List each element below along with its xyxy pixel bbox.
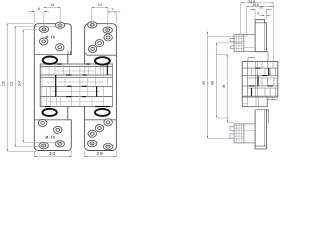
left leaf lower shoulder line bbox=[34, 119, 68, 121]
bold side link vertical 2 bbox=[257, 76, 259, 86]
svg-text:104: 104 bbox=[18, 81, 22, 87]
connector A bottom bbox=[207, 137, 232, 139]
dimension 28 bottom-right bbox=[85, 155, 117, 157]
bold link vertical 2 bbox=[96, 86, 98, 96]
lower ext v3 bbox=[257, 97, 259, 107]
screw hole right leaf cascade 3 bbox=[104, 34, 112, 41]
light partial row 4 bbox=[48, 101, 104, 103]
screw hole right leaf top 1 bbox=[87, 21, 98, 29]
dimension 14 top-left bbox=[44, 6, 60, 8]
bold side link vertical 3 bbox=[251, 88, 253, 96]
screw hole right leaf lower cascade 2 bbox=[95, 125, 103, 132]
pin boss bottom-right bbox=[95, 109, 110, 116]
plate bottom step bbox=[255, 145, 266, 147]
svg-text:95: 95 bbox=[202, 81, 206, 85]
svg-text:14: 14 bbox=[50, 3, 54, 7]
svg-text:48: 48 bbox=[222, 85, 226, 89]
housing bottom sub-step bbox=[242, 102, 247, 104]
dimension 8 top-left bbox=[28, 11, 34, 13]
screw hole right leaf cascade 4 bbox=[95, 40, 103, 47]
bracket-plate link mid bbox=[244, 46, 255, 48]
svg-text:10: 10 bbox=[259, 6, 263, 10]
side view left vertical dimensions bbox=[206, 32, 208, 138]
screw hole left leaf bottom row col1 bbox=[38, 141, 49, 149]
housing row 3b bbox=[247, 87, 277, 89]
light partial row 3 bbox=[52, 91, 100, 93]
upper bracket inner v2 bbox=[238, 34, 240, 51]
screw hole left leaf lower mid col2 bbox=[54, 126, 62, 133]
housing lower extension bbox=[242, 97, 267, 107]
pin boss top-left bbox=[43, 57, 57, 64]
connector hole A bbox=[23, 29, 40, 31]
housing pair line 1 bbox=[255, 62, 257, 98]
screw hole left leaf bottom row col2 bbox=[55, 140, 66, 148]
right shoulder notch side bbox=[86, 54, 88, 56]
bold link vertical 1 bbox=[55, 75, 57, 97]
svg-text:68: 68 bbox=[211, 81, 215, 85]
lower bracket inner v2 bbox=[238, 124, 240, 143]
svg-text:30: 30 bbox=[49, 151, 56, 157]
upper screw head 2 bbox=[230, 46, 234, 49]
lower bracket-plate link bottom bbox=[244, 142, 255, 144]
bold side dash 3 bbox=[267, 85, 272, 87]
housing row 3 bbox=[242, 85, 278, 87]
ext plate left face bbox=[254, 10, 256, 19]
vertical dim line 111 bbox=[14, 26, 16, 146]
screw hole left leaf top row col2 bbox=[55, 21, 66, 29]
housing row 4 bbox=[242, 95, 278, 97]
right leaf lower shoulder line bbox=[85, 119, 117, 121]
connector bottom leaf edge bbox=[7, 150, 36, 152]
svg-text:111: 111 bbox=[10, 81, 14, 86]
screw hole left leaf upper mid col2 bbox=[56, 44, 64, 51]
connector B top bbox=[217, 42, 242, 44]
screw hole right leaf lower cascade 1 bbox=[104, 119, 112, 126]
housing lower step line bbox=[256, 108, 268, 110]
svg-text:28: 28 bbox=[96, 151, 103, 157]
plate inner face line upper bbox=[264, 23, 266, 52]
svg-text:8: 8 bbox=[38, 7, 40, 11]
housing frame bbox=[242, 62, 278, 98]
lattice outer frame bbox=[40, 64, 112, 107]
ext line right leaf hole 1 bbox=[91, 8, 93, 27]
screw hole left leaf upper mid col1 bbox=[40, 38, 48, 45]
lower bracket inner v3 bbox=[241, 124, 243, 143]
bold side dash 1 bbox=[262, 75, 267, 77]
lower bracket inner v1 bbox=[235, 124, 237, 143]
light partial row 1 bbox=[56, 70, 95, 72]
housing row 2b bbox=[247, 77, 277, 79]
step vertical above housing bbox=[267, 52, 269, 62]
vertical dim line 118 bbox=[6, 24, 8, 152]
screw hole right leaf cascade 5 bbox=[88, 45, 96, 52]
upper bracket inner v1 bbox=[235, 34, 237, 51]
housing right cols bottom bbox=[267, 99, 278, 101]
housing pair line 2 bbox=[257, 62, 259, 98]
connector C top bbox=[216, 53, 228, 55]
screw hole right leaf bottom 2 bbox=[103, 142, 114, 150]
right leaf upper shoulder line bbox=[87, 54, 117, 56]
bold side dash 2 bbox=[249, 85, 255, 87]
lower ext v2 bbox=[255, 97, 257, 107]
ext plate right face bbox=[266, 10, 268, 19]
bracket-plate link top bbox=[244, 33, 255, 35]
ext line right leaf hole 2 bbox=[107, 8, 109, 33]
ext 24.8 left bbox=[240, 4, 242, 34]
left leaf upper shoulder line bbox=[34, 53, 68, 55]
screw hole left leaf lower mid col1 bbox=[38, 119, 46, 126]
bold link edges front lattice bbox=[45, 63, 50, 65]
tiny bore note upper left leaf bbox=[46, 36, 55, 39]
lower bracket-plate link mid bbox=[244, 129, 255, 131]
dimension 14 top-right bbox=[92, 6, 108, 8]
svg-text:2: 2 bbox=[257, 12, 259, 16]
ext right to housing corner bbox=[273, 4, 275, 61]
housing step vertical bbox=[268, 109, 270, 124]
housing left column line bbox=[246, 62, 248, 98]
plate top step bbox=[255, 22, 265, 24]
lower ext v1 bbox=[246, 97, 248, 107]
right leaf plate bbox=[85, 24, 117, 151]
bold side dash 4 bbox=[256, 67, 261, 69]
svg-text:14: 14 bbox=[98, 3, 102, 7]
light partial row 2 bbox=[47, 81, 103, 83]
housing row 2 bbox=[242, 75, 278, 77]
dimension 30 bottom-left bbox=[34, 155, 71, 157]
lower screw head 2 bbox=[230, 134, 234, 138]
lower bracket body bbox=[234, 124, 244, 143]
side view top dimensions bbox=[241, 2, 274, 4]
ext 19.6 left bbox=[246, 7, 248, 36]
upper bracket inner v3 bbox=[241, 34, 243, 51]
top link bar edge bbox=[62, 63, 90, 65]
housing row 1 bbox=[242, 67, 278, 69]
plate inner face line lower bbox=[264, 110, 266, 147]
connector hole row top bbox=[15, 25, 55, 27]
upper screw head 1 bbox=[230, 39, 234, 42]
leaf plate side profile upper segment bbox=[255, 20, 266, 52]
step horizontal above housing bbox=[244, 51, 268, 53]
connector C bottom bbox=[227, 122, 234, 124]
svg-text:118: 118 bbox=[2, 81, 6, 86]
housing right lower vert bbox=[271, 96, 273, 100]
screw hole right leaf top 2 bbox=[102, 26, 113, 34]
screw hole left leaf top row col1 bbox=[39, 25, 50, 33]
ext line leaf left edge bbox=[33, 13, 35, 23]
connector bottom hole bbox=[23, 141, 60, 143]
right shoulder notch top bbox=[85, 53, 87, 55]
leaf plate side profile lower segment bbox=[255, 110, 266, 150]
screw hole right leaf bottom 1 bbox=[87, 139, 98, 147]
pin boss bottom-left bbox=[42, 109, 56, 116]
dimension 7 top-right bbox=[108, 11, 120, 13]
pin boss top-right bbox=[95, 57, 110, 64]
bold side link vertical 1 bbox=[268, 68, 270, 76]
bold link vertical 3 bbox=[106, 64, 108, 75]
ext line right leaf right edge bbox=[115, 13, 117, 23]
upper bracket body bbox=[234, 34, 244, 51]
left leaf plate bbox=[34, 24, 71, 151]
ext line hole col2 bbox=[59, 8, 61, 22]
connector hole row bottom bbox=[15, 146, 44, 148]
vertical dim line 104 bbox=[22, 30, 24, 143]
lower screw head 1 bbox=[230, 126, 234, 130]
svg-text:19.6: 19.6 bbox=[252, 3, 259, 7]
connector A top bbox=[207, 35, 247, 37]
tiny bore note lower left leaf bbox=[46, 136, 55, 139]
connector B bottom bbox=[217, 117, 230, 119]
ext line hole col1 bbox=[43, 13, 45, 31]
step to housing top bbox=[248, 57, 255, 59]
connector top leaf edge bbox=[7, 23, 34, 25]
screw hole right leaf lower cascade 3 bbox=[88, 130, 96, 137]
svg-text:7: 7 bbox=[111, 7, 113, 11]
lower bracket-plate link top bbox=[244, 123, 255, 125]
